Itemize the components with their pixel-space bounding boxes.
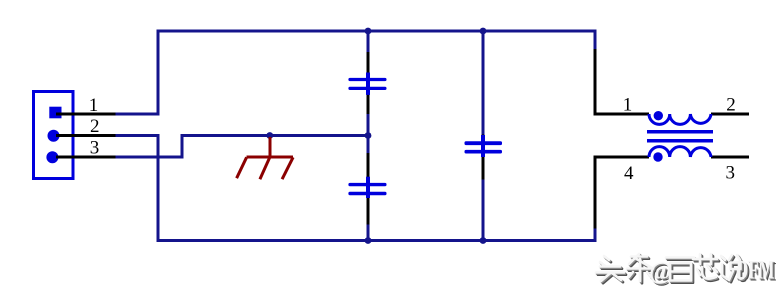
junction bottom right cap	[480, 237, 487, 244]
pin 3 lead	[56, 156, 115, 159]
pin 4 lead	[595, 157, 649, 229]
capacitor C2 lower	[348, 153, 386, 224]
wire mid cap column top	[367, 31, 370, 53]
svg-text:3: 3	[726, 162, 736, 183]
connector J1	[34, 92, 74, 179]
wire mid cap column bottom	[367, 224, 370, 241]
wire mid cap column middle	[367, 114, 370, 154]
wire net2: pin2 down left rail, bottom rail, right rise	[115, 136, 595, 241]
pin 1 lead	[56, 113, 115, 116]
svg-text:1: 1	[623, 94, 633, 115]
primary winding	[649, 114, 711, 124]
svg-text:2: 2	[726, 94, 736, 115]
pin 2 lead	[56, 134, 115, 137]
primary polarity dot	[654, 111, 663, 120]
junction ground tap	[266, 132, 273, 139]
transformer T1	[595, 49, 749, 229]
pin 3 lead	[711, 156, 749, 159]
svg-text:3: 3	[90, 138, 100, 159]
capacitor C1 upper	[348, 52, 386, 114]
svg-text:1: 1	[89, 95, 99, 116]
wire right cap column top	[482, 31, 485, 136]
secondary polarity dot	[653, 152, 662, 161]
ground	[237, 137, 294, 179]
svg-text:4: 4	[624, 163, 634, 184]
wire net1: pin1 to top rail, top rail, right drop	[115, 31, 595, 114]
pin 2 lead	[711, 113, 749, 116]
capacitor C3 right	[465, 135, 503, 180]
pin 1 lead	[595, 49, 649, 114]
wire right cap column bottom	[482, 180, 485, 241]
svg-text:2: 2	[90, 116, 100, 137]
junction top mid	[365, 28, 372, 35]
secondary winding	[649, 147, 711, 157]
core lines	[647, 130, 713, 133]
wire net3: pin3 jog up to mid wire	[115, 136, 368, 158]
junction bottom mid	[365, 237, 372, 244]
junction top right cap	[480, 28, 487, 35]
junction mid cap center	[365, 132, 372, 139]
